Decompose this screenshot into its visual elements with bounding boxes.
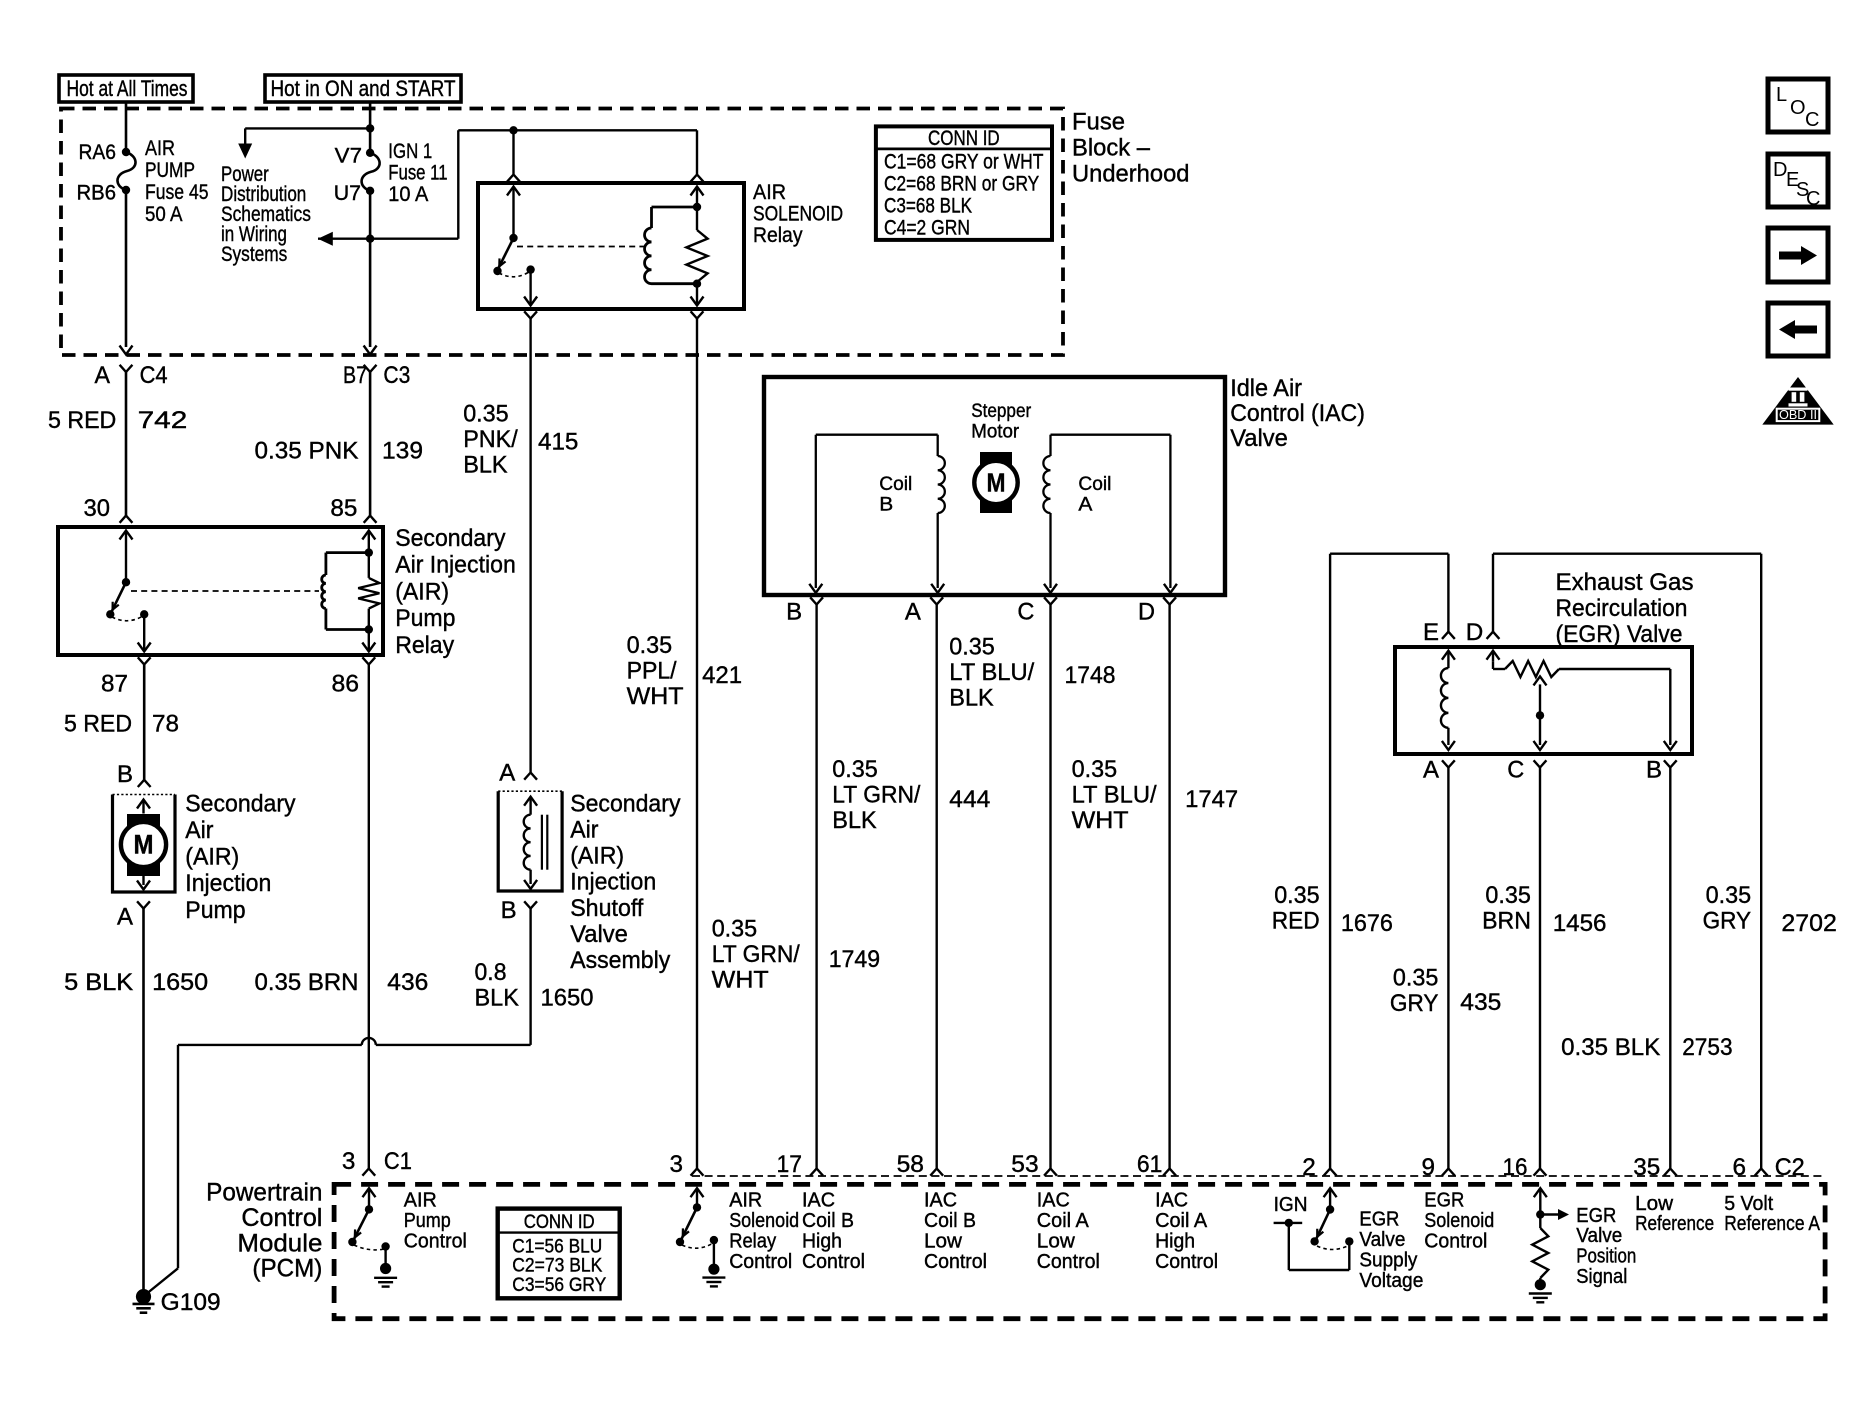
fuse F45 value label bbox=[145, 136, 209, 226]
pump motor symbol M bbox=[121, 800, 166, 890]
AIR solenoid relay coil bbox=[645, 203, 702, 288]
svg-text:D: D bbox=[1138, 599, 1155, 626]
fuse block dashed outline (Fuse Block - Underhood) bbox=[61, 109, 1063, 356]
svg-text:Control: Control bbox=[241, 1204, 322, 1232]
svg-text:B: B bbox=[786, 599, 802, 626]
svg-text:V7: V7 bbox=[335, 144, 362, 168]
svg-text:B: B bbox=[1646, 757, 1662, 784]
svg-text:C: C bbox=[1805, 109, 1819, 131]
wire label 5 RED 78 bbox=[64, 711, 179, 738]
junction to power distribution schematic bbox=[366, 124, 374, 132]
junction at AIR solenoid relay pin feed bbox=[509, 126, 517, 134]
svg-text:OBD II: OBD II bbox=[1779, 408, 1817, 422]
icon forward arrow button bbox=[1768, 228, 1828, 282]
svg-text:1749: 1749 bbox=[829, 946, 880, 973]
svg-text:Systems: Systems bbox=[221, 242, 287, 266]
IAC coil A winding bbox=[1043, 435, 1177, 593]
svg-text:0.35: 0.35 bbox=[1274, 882, 1320, 909]
svg-text:High: High bbox=[1155, 1230, 1195, 1252]
label IAC Coil B Low Control bbox=[924, 1190, 987, 1273]
label Coil A bbox=[1078, 473, 1111, 515]
label EGR Valve Supply Voltage bbox=[1359, 1209, 1423, 1292]
svg-text:Valve: Valve bbox=[1230, 425, 1288, 452]
label EGR Solenoid Control bbox=[1424, 1190, 1494, 1253]
AIR solenoid relay resistor bbox=[686, 207, 707, 284]
label 5 Volt Reference A bbox=[1724, 1193, 1820, 1235]
svg-text:EGR: EGR bbox=[1424, 1190, 1464, 1212]
svg-text:A: A bbox=[117, 904, 134, 931]
solid arrow to Power Distribution Schematics bbox=[238, 144, 252, 159]
IAC coil B winding bbox=[809, 435, 945, 593]
module Powertrain Control Module (PCM) dashed box bbox=[334, 1184, 1825, 1318]
svg-text:Air Injection: Air Injection bbox=[395, 552, 516, 579]
svg-text:Coil A: Coil A bbox=[1037, 1210, 1090, 1232]
svg-text:0.8: 0.8 bbox=[475, 959, 507, 986]
connector label E bbox=[1423, 619, 1439, 646]
IAC stepper motor symbol M bbox=[974, 452, 1017, 513]
svg-text:B: B bbox=[501, 897, 517, 924]
connector IAC pin C bbox=[1017, 597, 1057, 625]
pin label 6 / C2 bbox=[1733, 1154, 1805, 1181]
svg-text:Low: Low bbox=[1635, 1193, 1674, 1215]
svg-text:Block –: Block – bbox=[1072, 135, 1150, 162]
pin label 3 (AIR solenoid relay control) bbox=[670, 1151, 684, 1178]
svg-text:IAC: IAC bbox=[1155, 1190, 1188, 1212]
wire label 0.35 RED 1676 bbox=[1272, 882, 1393, 937]
svg-text:RB6: RB6 bbox=[77, 181, 117, 205]
svg-text:M: M bbox=[987, 468, 1006, 498]
pin label 53 bbox=[1011, 1151, 1038, 1178]
svg-text:G109: G109 bbox=[161, 1289, 221, 1316]
wire IGN1 branch to AIR solenoid relay bbox=[318, 130, 697, 238]
svg-text:LT GRN/: LT GRN/ bbox=[712, 941, 800, 968]
AIR pump relay resistor bbox=[358, 553, 379, 630]
solid arrow (feed from IGN 1 fuse) bbox=[318, 232, 333, 246]
wire label 0.35 LT BLU/WHT 1747 bbox=[1072, 756, 1239, 834]
PCM EGR valve supply voltage switch bbox=[1274, 1188, 1354, 1270]
svg-text:1747: 1747 bbox=[1185, 786, 1238, 813]
connector below relay pin 86 (wire 436 to PCM) bbox=[362, 657, 375, 1175]
EGR sensor wiper bbox=[1534, 676, 1547, 750]
wire label 0.35 GRY 2702 bbox=[1703, 882, 1837, 937]
svg-text:BLK: BLK bbox=[832, 807, 876, 834]
svg-text:C3=68 BLK: C3=68 BLK bbox=[884, 195, 972, 218]
svg-text:421: 421 bbox=[702, 662, 742, 689]
svg-text:9: 9 bbox=[1422, 1154, 1436, 1181]
svg-text:Fuse: Fuse bbox=[1072, 109, 1125, 136]
icon LOC button bbox=[1768, 79, 1828, 132]
svg-text:435: 435 bbox=[1460, 989, 1501, 1016]
svg-text:0.35 BLK: 0.35 BLK bbox=[1561, 1034, 1660, 1061]
valve Exhaust Gas Recirculation (EGR) box bbox=[1395, 647, 1692, 754]
svg-text:IAC: IAC bbox=[1037, 1190, 1070, 1212]
svg-text:1748: 1748 bbox=[1065, 662, 1116, 689]
svg-text:RED: RED bbox=[1272, 907, 1320, 934]
svg-text:5 RED: 5 RED bbox=[64, 711, 132, 738]
wire down to AIR solenoid relay switch pin bbox=[507, 130, 520, 181]
wire label 0.35 PNK/BLK 415 bbox=[463, 401, 578, 479]
svg-text:2702: 2702 bbox=[1781, 910, 1837, 937]
svg-text:Air: Air bbox=[185, 817, 213, 844]
svg-text:Control: Control bbox=[802, 1251, 865, 1273]
svg-text:0.35: 0.35 bbox=[463, 401, 509, 428]
svg-text:Pump: Pump bbox=[395, 605, 455, 632]
svg-text:C3: C3 bbox=[383, 362, 410, 389]
svg-text:C3=56 GRY: C3=56 GRY bbox=[512, 1275, 606, 1296]
connector below AIR solenoid relay (control wire 421) bbox=[691, 311, 704, 1175]
AIR pump relay coil pin wires bbox=[362, 531, 375, 652]
AIR pump relay switch bbox=[106, 531, 151, 652]
wire A/C4 to AIR pump relay pin 30 bbox=[120, 372, 133, 523]
svg-text:C2: C2 bbox=[1775, 1154, 1805, 1181]
svg-text:C2=73 BLK: C2=73 BLK bbox=[512, 1256, 602, 1277]
wire EGR B to PCM pin 35 bbox=[1664, 768, 1677, 1176]
wire EGR C to PCM pin 16 bbox=[1534, 768, 1547, 1176]
power label box "Hot in ON and START" bbox=[265, 75, 461, 102]
svg-text:GRY: GRY bbox=[1390, 990, 1439, 1017]
relay AIR SOLENOID Relay box bbox=[478, 183, 744, 309]
svg-text:85: 85 bbox=[330, 495, 357, 522]
wire IAC B to PCM pin 17 bbox=[810, 605, 823, 1176]
svg-text:BLK: BLK bbox=[475, 985, 519, 1012]
label Secondary Air (AIR) Injection Shutoff Valve Assembly bbox=[570, 790, 681, 974]
svg-text:Secondary: Secondary bbox=[570, 790, 681, 817]
svg-text:Fuse 11: Fuse 11 bbox=[388, 161, 447, 185]
svg-text:Pump: Pump bbox=[185, 897, 245, 924]
pin label 17 bbox=[777, 1151, 803, 1178]
label Secondary Air Injection (AIR) Pump Relay bbox=[395, 525, 516, 659]
fuse F45 AIR PUMP Fuse 45 50 A bbox=[117, 148, 135, 194]
PCM AIR solenoid relay control driver switch bbox=[676, 1188, 726, 1286]
svg-text:AIR: AIR bbox=[729, 1190, 762, 1212]
wire from Hot at All Times to fuse F45 bbox=[125, 102, 128, 152]
svg-text:Control: Control bbox=[1037, 1251, 1100, 1273]
svg-text:PPL/: PPL/ bbox=[627, 657, 677, 684]
connector EGR pin C bbox=[1507, 757, 1546, 784]
svg-text:(AIR): (AIR) bbox=[570, 843, 624, 870]
svg-text:WHT: WHT bbox=[1072, 807, 1129, 834]
wire label 5 RED 742 bbox=[48, 407, 187, 434]
svg-text:Air: Air bbox=[570, 817, 598, 844]
pin label 87 bbox=[101, 671, 128, 698]
svg-text:(AIR): (AIR) bbox=[395, 578, 449, 605]
label Powertrain Control Module (PCM) bbox=[206, 1179, 322, 1283]
svg-text:Control: Control bbox=[404, 1230, 467, 1252]
solenoid Secondary Air (AIR) Injection Shutoff Valve box bbox=[498, 791, 562, 891]
svg-text:Module: Module bbox=[237, 1229, 322, 1257]
svg-text:58: 58 bbox=[897, 1151, 924, 1178]
svg-text:LT BLU/: LT BLU/ bbox=[1072, 782, 1157, 809]
connector label A (shutoff valve) bbox=[499, 759, 516, 786]
svg-text:BLK: BLK bbox=[949, 685, 993, 712]
pin label 30 bbox=[84, 495, 111, 522]
EGR position sensor potentiometer bbox=[1487, 651, 1677, 750]
wire PCM pin 6 to EGR pin D bbox=[1487, 554, 1768, 1176]
icon OBD II triangle bbox=[1762, 377, 1833, 425]
label AIR Pump Control bbox=[404, 1190, 467, 1253]
svg-text:Control: Control bbox=[1424, 1230, 1487, 1252]
ground G109 bbox=[133, 1289, 155, 1313]
svg-text:Secondary: Secondary bbox=[185, 790, 296, 817]
svg-text:C1: C1 bbox=[384, 1148, 412, 1175]
connector EGR pin B bbox=[1646, 757, 1677, 784]
label Stepper Motor bbox=[971, 400, 1031, 442]
svg-text:0.35: 0.35 bbox=[949, 634, 995, 661]
connector label D bbox=[1466, 619, 1484, 646]
svg-text:35: 35 bbox=[1633, 1154, 1660, 1181]
svg-text:Motor: Motor bbox=[971, 420, 1019, 442]
svg-text:Secondary: Secondary bbox=[395, 525, 506, 552]
fuse F11 value label bbox=[388, 139, 447, 206]
svg-text:C1=56 BLU: C1=56 BLU bbox=[512, 1236, 602, 1257]
icon DESC button bbox=[1768, 154, 1828, 210]
svg-text:PUMP: PUMP bbox=[145, 158, 195, 182]
svg-text:Underhood: Underhood bbox=[1072, 161, 1190, 188]
wire down to AIR solenoid relay coil pin bbox=[691, 130, 704, 181]
label AIR Solenoid Relay Control bbox=[729, 1190, 799, 1273]
wire IAC A to PCM pin 58 bbox=[930, 605, 943, 1176]
shutoff valve solenoid coil bbox=[524, 797, 548, 889]
table CONN ID (PCM connectors) bbox=[498, 1209, 620, 1299]
svg-text:Hot at All Times: Hot at All Times bbox=[67, 76, 188, 101]
wire label 0.35 BLK 2753 bbox=[1561, 1034, 1733, 1061]
svg-text:A: A bbox=[905, 599, 922, 626]
svg-text:Coil B: Coil B bbox=[802, 1210, 854, 1232]
svg-text:2: 2 bbox=[1302, 1154, 1316, 1181]
terminal label U7 bbox=[334, 181, 361, 205]
junction IGN1 branch to AIR solenoid relay bbox=[366, 235, 374, 243]
connector label B (pump) bbox=[117, 761, 133, 788]
svg-text:Solenoid: Solenoid bbox=[1424, 1210, 1494, 1232]
svg-text:EGR: EGR bbox=[1359, 1209, 1399, 1231]
svg-text:436: 436 bbox=[387, 969, 428, 996]
label Fuse Block - Underhood bbox=[1072, 109, 1190, 188]
pin label 58 bbox=[897, 1151, 924, 1178]
pin label 85 bbox=[330, 495, 357, 522]
label IGN (PCM internal feed) bbox=[1274, 1194, 1308, 1216]
pin label 9 bbox=[1422, 1154, 1436, 1181]
svg-text:IAC: IAC bbox=[802, 1190, 835, 1212]
svg-text:IGN 1: IGN 1 bbox=[388, 139, 432, 163]
svg-text:3: 3 bbox=[670, 1151, 684, 1178]
AIR pump relay dashed actuator link bbox=[131, 590, 319, 592]
svg-text:WHT: WHT bbox=[627, 683, 684, 710]
svg-text:Relay: Relay bbox=[729, 1230, 776, 1252]
svg-text:0.35 PNK: 0.35 PNK bbox=[255, 438, 359, 465]
svg-text:AIR: AIR bbox=[404, 1190, 437, 1212]
svg-text:Signal: Signal bbox=[1576, 1266, 1627, 1288]
pin label 16 bbox=[1503, 1154, 1528, 1181]
wire label 5 BLK 1650 bbox=[64, 969, 208, 996]
terminal label V7 bbox=[335, 144, 362, 168]
svg-text:A: A bbox=[1423, 757, 1440, 784]
svg-text:B7: B7 bbox=[343, 362, 367, 389]
svg-text:Coil: Coil bbox=[1078, 473, 1111, 495]
svg-text:Exhaust Gas: Exhaust Gas bbox=[1556, 569, 1694, 596]
icon back arrow button bbox=[1768, 303, 1828, 356]
svg-text:1676: 1676 bbox=[1341, 910, 1393, 937]
svg-text:B: B bbox=[117, 761, 133, 788]
wire label 0.35 PNK 139 bbox=[255, 438, 424, 465]
svg-text:U7: U7 bbox=[334, 181, 361, 205]
wire pump to ground G109 bbox=[142, 909, 145, 1294]
label AIR SOLENOID Relay bbox=[753, 180, 843, 247]
wire fuse F45 to connector A/C4 bbox=[120, 190, 133, 355]
svg-text:1456: 1456 bbox=[1553, 910, 1607, 937]
svg-text:A: A bbox=[1078, 493, 1092, 515]
wire EGR A to PCM pin 9 bbox=[1442, 768, 1455, 1176]
wire label 0.35 LT GRN/WHT 1749 bbox=[712, 916, 880, 994]
svg-text:IGN: IGN bbox=[1274, 1194, 1308, 1216]
svg-text:EGR: EGR bbox=[1576, 1205, 1616, 1227]
label Idle Air Control (IAC) Valve bbox=[1230, 375, 1365, 452]
svg-text:O: O bbox=[1790, 97, 1806, 119]
label Secondary Air (AIR) Injection Pump bbox=[185, 790, 296, 923]
svg-text:0.35: 0.35 bbox=[1706, 882, 1752, 909]
label Power Distribution Schematics in Wiring Systems bbox=[221, 162, 311, 266]
svg-text:Hot in ON and START: Hot in ON and START bbox=[271, 76, 456, 101]
label IAC Coil B High Control bbox=[802, 1190, 865, 1273]
connector label A / C4 bbox=[95, 362, 168, 389]
PCM connector dashed rail bbox=[692, 1175, 1826, 1177]
svg-text:10 A: 10 A bbox=[388, 182, 429, 206]
connector EGR pin A bbox=[1423, 757, 1455, 784]
pin label 35 bbox=[1633, 1154, 1660, 1181]
connector IAC pin B bbox=[786, 597, 823, 625]
wire label 0.35 LT BLU/BLK 1748 bbox=[949, 634, 1115, 712]
svg-text:BLK: BLK bbox=[463, 451, 507, 478]
svg-text:E: E bbox=[1423, 619, 1439, 646]
svg-text:87: 87 bbox=[101, 671, 128, 698]
svg-text:IAC: IAC bbox=[924, 1190, 957, 1212]
svg-text:C: C bbox=[1017, 599, 1034, 626]
AIR pump relay coil bbox=[322, 548, 373, 633]
svg-text:53: 53 bbox=[1011, 1151, 1038, 1178]
svg-text:Low: Low bbox=[924, 1230, 963, 1252]
svg-text:0.35 BRN: 0.35 BRN bbox=[255, 969, 359, 996]
wire shutoff valve B to ground G109 bbox=[145, 909, 531, 1296]
svg-text:Idle Air: Idle Air bbox=[1230, 375, 1302, 402]
svg-text:86: 86 bbox=[332, 671, 360, 698]
svg-text:78: 78 bbox=[152, 711, 179, 738]
svg-text:Valve: Valve bbox=[1359, 1229, 1405, 1251]
svg-text:AIR: AIR bbox=[145, 136, 175, 160]
svg-text:1650: 1650 bbox=[152, 969, 208, 996]
svg-text:444: 444 bbox=[949, 786, 990, 813]
AIR solenoid relay coil pin wires bbox=[691, 187, 704, 306]
label Exhaust Gas Recirculation (EGR) Valve bbox=[1556, 569, 1694, 648]
wire PCM pin 2 to EGR pin E bbox=[1324, 554, 1455, 1176]
svg-text:Stepper: Stepper bbox=[971, 400, 1031, 422]
terminal label RB6 bbox=[77, 181, 117, 205]
connector below pump (pin A) bbox=[117, 901, 150, 930]
svg-text:A: A bbox=[95, 362, 111, 389]
svg-text:Voltage: Voltage bbox=[1359, 1270, 1423, 1292]
svg-text:Recirculation: Recirculation bbox=[1556, 595, 1688, 622]
svg-text:17: 17 bbox=[777, 1151, 803, 1178]
svg-text:High: High bbox=[802, 1230, 842, 1252]
svg-text:C: C bbox=[1806, 188, 1820, 210]
pin label 61 bbox=[1137, 1151, 1163, 1178]
svg-text:2753: 2753 bbox=[1682, 1034, 1732, 1061]
svg-text:A: A bbox=[499, 759, 516, 786]
svg-text:Valve: Valve bbox=[1576, 1225, 1622, 1247]
PCM EGR position signal input bbox=[1529, 1188, 1569, 1302]
svg-text:6: 6 bbox=[1733, 1154, 1747, 1181]
AIR solenoid relay switch bbox=[493, 187, 537, 306]
wire from Hot in ON and START down bbox=[369, 102, 372, 153]
table CONN ID (fuse block connectors) bbox=[876, 126, 1052, 239]
svg-text:Control (IAC): Control (IAC) bbox=[1230, 400, 1365, 427]
wire label 0.35 BRN 1456 bbox=[1482, 882, 1606, 937]
svg-text:Control: Control bbox=[1155, 1251, 1218, 1273]
svg-text:RA6: RA6 bbox=[79, 140, 117, 164]
wire B7/C3 to AIR pump relay pin 85 bbox=[364, 372, 377, 523]
label IAC Coil A High Control bbox=[1155, 1190, 1218, 1273]
svg-text:5 RED: 5 RED bbox=[48, 407, 116, 434]
svg-text:742: 742 bbox=[138, 407, 188, 434]
svg-text:C2=68 BRN or GRY: C2=68 BRN or GRY bbox=[884, 173, 1039, 196]
svg-text:SOLENOID: SOLENOID bbox=[753, 202, 843, 226]
svg-text:61: 61 bbox=[1137, 1151, 1163, 1178]
svg-text:M: M bbox=[134, 830, 154, 860]
svg-text:C1=68 GRY or WHT: C1=68 GRY or WHT bbox=[884, 151, 1044, 174]
wire label 0.35 GRY 435 bbox=[1390, 965, 1501, 1017]
svg-text:AIR: AIR bbox=[753, 180, 786, 204]
PCM AIR pump control driver switch bbox=[348, 1188, 397, 1286]
svg-text:Powertrain: Powertrain bbox=[206, 1179, 322, 1207]
svg-text:Coil B: Coil B bbox=[924, 1210, 976, 1232]
terminal label RA6 bbox=[79, 140, 117, 164]
svg-text:Reference A: Reference A bbox=[1724, 1213, 1820, 1235]
AIR solenoid relay dashed actuator link bbox=[517, 246, 645, 248]
wire to power distribution arrow bbox=[245, 128, 370, 144]
svg-text:Control: Control bbox=[729, 1251, 792, 1273]
power label box "Hot at All Times" bbox=[59, 75, 193, 102]
svg-text:Supply: Supply bbox=[1359, 1249, 1417, 1271]
svg-text:Injection: Injection bbox=[570, 869, 656, 896]
svg-text:Pump: Pump bbox=[404, 1210, 451, 1232]
connector label B7 / C3 bbox=[343, 362, 410, 389]
svg-text:C4=2 GRN: C4=2 GRN bbox=[884, 217, 970, 240]
svg-text:LT BLU/: LT BLU/ bbox=[949, 659, 1034, 686]
svg-text:0.35: 0.35 bbox=[627, 632, 673, 659]
svg-text:5 Volt: 5 Volt bbox=[1724, 1193, 1773, 1215]
svg-text:GRY: GRY bbox=[1703, 907, 1752, 934]
svg-text:Valve: Valve bbox=[570, 921, 628, 948]
svg-text:Control: Control bbox=[924, 1251, 987, 1273]
svg-text:WHT: WHT bbox=[712, 966, 769, 993]
svg-text:Fuse 45: Fuse 45 bbox=[145, 180, 209, 204]
pin label 3 / C1 bbox=[342, 1148, 412, 1175]
connector below shutoff valve (pin B) bbox=[501, 897, 537, 924]
svg-text:1650: 1650 bbox=[541, 985, 594, 1012]
valve Idle Air Control (IAC) box bbox=[764, 377, 1225, 595]
svg-text:0.35: 0.35 bbox=[832, 756, 878, 783]
connector below AIR solenoid relay (to shutoff valve) bbox=[524, 311, 537, 779]
svg-text:CONN ID: CONN ID bbox=[928, 127, 1000, 150]
wire IAC D to PCM pin 61 bbox=[1163, 605, 1176, 1176]
relay Secondary Air Injection (AIR) Pump Relay box bbox=[58, 527, 383, 655]
label IAC Coil A Low Control bbox=[1037, 1190, 1100, 1273]
wire label 0.35 PPL/WHT 421 bbox=[627, 632, 743, 710]
svg-text:C4: C4 bbox=[140, 362, 168, 389]
pin label 2 bbox=[1302, 1154, 1316, 1181]
connector below relay pin 87 bbox=[138, 657, 151, 787]
wire IAC C to PCM pin 53 bbox=[1044, 605, 1057, 1176]
svg-text:16: 16 bbox=[1503, 1154, 1528, 1181]
svg-text:Solenoid: Solenoid bbox=[729, 1210, 799, 1232]
